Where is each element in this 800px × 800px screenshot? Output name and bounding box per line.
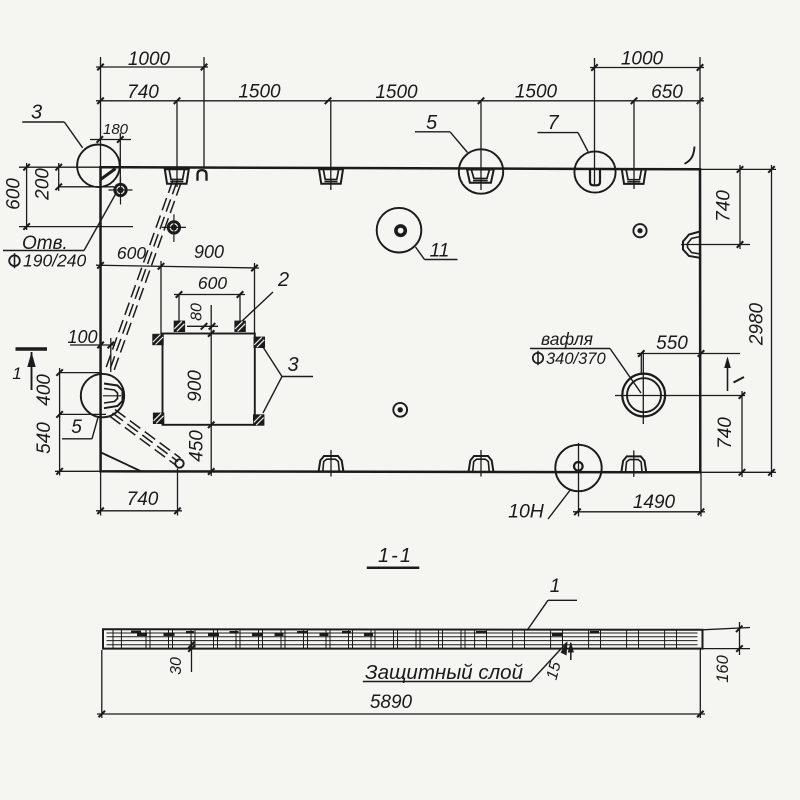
label 1 with leader (section) — [527, 576, 577, 631]
dimension 1000 (top left) — [96, 49, 208, 70]
svg-text:550: 550 — [656, 333, 688, 354]
label 5 with leader (top) — [415, 112, 468, 153]
detail circle 10Н (bottom) — [555, 445, 601, 491]
anchor loop on top edge x=634 — [622, 169, 646, 184]
tick at centerline/dim crossing — [739, 392, 746, 399]
reference mark J at top right — [685, 147, 695, 164]
svg-text:1: 1 — [12, 364, 21, 383]
anchor loop on top edge x=177 — [165, 169, 189, 184]
extension line x=700.3 below slab — [699, 649, 701, 718]
label Защитный слой with leader — [363, 641, 568, 684]
sling dashed line B offset 0 — [113, 413, 179, 462]
extension line x=701 below corner — [700, 473, 702, 517]
top edge right extension line — [700, 168, 776, 170]
rebar dashes in slab — [131, 631, 599, 636]
svg-text:3: 3 — [287, 354, 298, 376]
svg-text:1: 1 — [550, 576, 561, 597]
extension line x=177.5 below — [177, 469, 179, 516]
dimension 1000 (top right) — [590, 49, 704, 71]
anchor loop on right edge — [683, 232, 700, 258]
bottom edge left extension line — [55, 470, 101, 472]
extension line x=594.5 through item 7 — [594, 58, 596, 185]
dimension 600 above rebars — [174, 273, 245, 298]
dimension 180 (top left) — [90, 121, 131, 143]
sling end ring — [175, 459, 183, 467]
svg-text:5: 5 — [71, 417, 82, 438]
label 10Н with leader — [508, 489, 571, 523]
panel outline (plan view) — [101, 167, 701, 472]
dimension 15 (protective layer) — [544, 642, 574, 682]
dimension 400 (left) — [34, 368, 63, 418]
chamfer chord inside circle 3 — [101, 169, 116, 180]
extension line x=481 through circle 5 anchor — [480, 101, 482, 190]
svg-text:5: 5 — [426, 112, 438, 134]
grid vertical dimension line — [210, 305, 212, 476]
extension line x=179 to rebar — [178, 295, 180, 322]
extension line x=102 below slab — [101, 650, 103, 718]
anchor loop inside circle 5 — [467, 170, 494, 183]
svg-text:11: 11 — [430, 241, 450, 262]
tick marks on vertical grid chain — [208, 330, 215, 475]
insert dot inside circle 10Н — [574, 462, 583, 471]
svg-text:650: 650 — [651, 82, 683, 103]
dimension 5890 (section length) — [97, 692, 705, 717]
svg-text:Защитный слой: Защитный слой — [365, 661, 523, 684]
lifting point crosshair 2 — [162, 214, 186, 242]
svg-text:10Н: 10Н — [508, 501, 545, 523]
svg-text:450: 450 — [187, 430, 208, 462]
extension line x=204 to U-insert — [203, 57, 205, 169]
svg-text:740: 740 — [715, 417, 736, 449]
void circle Ф340/370 inner — [627, 378, 661, 412]
detail circle 3 (top-left corner) — [77, 145, 120, 188]
dimension 540 (left) — [34, 414, 63, 475]
void circle Ф340/370 outer — [622, 374, 665, 417]
slab rib lines — [113, 630, 677, 649]
dimension 740 (right bottom) — [715, 391, 745, 477]
label 2 with leader — [242, 269, 290, 322]
dimension 2980 (right) — [747, 165, 775, 477]
svg-text:740: 740 — [127, 82, 159, 103]
dimension 600 (left vertical) — [4, 163, 30, 230]
dimension 80 below rebars — [187, 303, 218, 330]
svg-text:1000: 1000 — [128, 49, 171, 70]
small tube mark center bottom — [393, 403, 407, 417]
svg-text:1500: 1500 — [375, 82, 418, 103]
anchor loop on bottom edge x=331 — [319, 450, 344, 477]
centerline through circle 10Н — [578, 443, 580, 517]
label вафля Ф340/370 with leader — [530, 329, 641, 393]
extension line x=100.6 below — [100, 471, 102, 515]
svg-text:30: 30 — [168, 657, 185, 675]
svg-text:5890: 5890 — [370, 692, 413, 713]
extension line x=254.5 to grid corner — [254, 263, 256, 338]
svg-text:1490: 1490 — [633, 492, 676, 513]
extension line x=177 to anchor — [176, 101, 178, 187]
slab lamination lines — [107, 633, 698, 645]
dimension 600/900 chain above grid — [96, 242, 259, 271]
svg-text:1500: 1500 — [515, 82, 558, 103]
sling dashed line A offset 4.2 — [105, 181, 173, 371]
dimension 1490 (bottom right) — [573, 492, 705, 515]
welded mesh outline — [163, 334, 255, 425]
svg-text:200: 200 — [33, 168, 54, 201]
extension line y=414.4 — [60, 413, 106, 415]
dimension 550 — [637, 333, 740, 357]
section cut marker 1 (left) — [12, 349, 47, 390]
svg-text:900: 900 — [194, 242, 224, 262]
svg-text:7: 7 — [547, 112, 559, 134]
void circle vertical centerline — [642, 351, 644, 424]
tube ring inside circle 11 — [396, 226, 405, 235]
extension line y=226.6 — [19, 226, 133, 228]
svg-text:740: 740 — [714, 190, 735, 222]
svg-text:190/240: 190/240 — [23, 251, 87, 271]
label 7 with leader — [538, 112, 589, 152]
extension line x=240 to rebar — [239, 295, 241, 322]
label 3 with leader (top left) — [22, 102, 82, 148]
svg-text:540: 540 — [34, 422, 55, 454]
dimension 160 (slab thickness) — [703, 622, 751, 683]
rebar section squares — [152, 321, 265, 426]
extension line x=328 to anchor — [330, 101, 332, 190]
extension line y=244.5 through right anchor — [681, 244, 750, 246]
svg-text:2: 2 — [277, 269, 289, 291]
sling dashed line A offset 0 — [109, 182, 177, 372]
lifting point crosshair 1 — [109, 177, 133, 205]
extension line y=372.6 — [60, 372, 102, 374]
svg-text:вафля: вафля — [541, 329, 593, 349]
detail circle 5 (left edge anchor) — [81, 374, 124, 417]
extension line x=100 above corner — [100, 57, 102, 167]
dimension 740 (bottom left) — [96, 489, 182, 514]
label 3 with double leader (grid) — [263, 347, 313, 413]
sling dashed line B offset -4.2 — [115, 410, 181, 459]
extension line x=700 above right corner — [699, 57, 701, 169]
svg-text:740: 740 — [127, 489, 159, 510]
extension line x=120.3 down to lifting point — [119, 133, 121, 184]
slot insert inside circle 7 — [590, 169, 600, 185]
sling dashed line B offset 4.2 — [110, 416, 176, 465]
svg-text:400: 400 — [34, 374, 55, 406]
dimension chain 740/1500/1500/1500/650 (top) — [96, 82, 704, 105]
svg-text:340/370: 340/370 — [546, 350, 606, 368]
svg-text:900: 900 — [185, 370, 206, 402]
sling dashed line A offset -4.2 — [113, 183, 181, 373]
elevation arrow mark — [724, 357, 744, 392]
dimension 30 (section) — [168, 641, 195, 675]
extension line y=186.8 to lifting point — [59, 186, 114, 188]
detail circle 5 (top anchor) — [459, 149, 503, 193]
detail circle 11 — [377, 208, 422, 253]
label 5 with leader (left) — [62, 417, 98, 439]
bottom edge right extension line — [700, 471, 776, 473]
small tube mark right — [633, 224, 646, 237]
void circle horizontal centerline — [615, 395, 745, 397]
dimension 740 (right top) — [714, 165, 744, 249]
svg-text:2980: 2980 — [747, 302, 768, 346]
extension line x=110.8 — [110, 338, 112, 372]
extension line x=641.3 to circle — [640, 354, 642, 376]
dimension 100 (left) — [67, 327, 115, 348]
svg-text:80: 80 — [189, 303, 206, 321]
anchor loop on bottom edge x=481 — [469, 450, 494, 477]
svg-text:600: 600 — [198, 273, 227, 293]
dimension 200 (left vertical) — [33, 163, 62, 201]
top edge left extension line — [19, 166, 101, 168]
label Отв. Ф190/240 with leader — [3, 192, 117, 271]
svg-text:1-1: 1-1 — [378, 545, 413, 567]
label 11 with leader — [416, 241, 458, 262]
extension line x=634 to anchor — [633, 101, 635, 189]
anchor loop on bottom edge x=633.8 — [621, 450, 646, 477]
svg-text:100: 100 — [67, 327, 97, 347]
svg-text:1500: 1500 — [238, 82, 281, 103]
svg-text:160: 160 — [714, 654, 732, 682]
svg-text:600: 600 — [4, 178, 25, 210]
extension line x=161 to grid corner — [160, 261, 162, 336]
detail circle 7 (top insert) — [574, 151, 615, 192]
U-insert on top edge x=202 — [198, 170, 207, 181]
anchor recess left edge — [103, 384, 123, 409]
svg-text:1000: 1000 — [621, 49, 664, 70]
svg-text:3: 3 — [31, 102, 42, 124]
slab outline (section) — [103, 629, 703, 648]
anchor loop on top edge x=331 — [319, 169, 343, 184]
svg-text:600: 600 — [117, 243, 146, 263]
svg-text:15: 15 — [544, 660, 565, 682]
svg-text:180: 180 — [103, 121, 129, 138]
section title 1-1 — [367, 545, 420, 568]
corner chamfer line bottom-left — [101, 453, 142, 472]
